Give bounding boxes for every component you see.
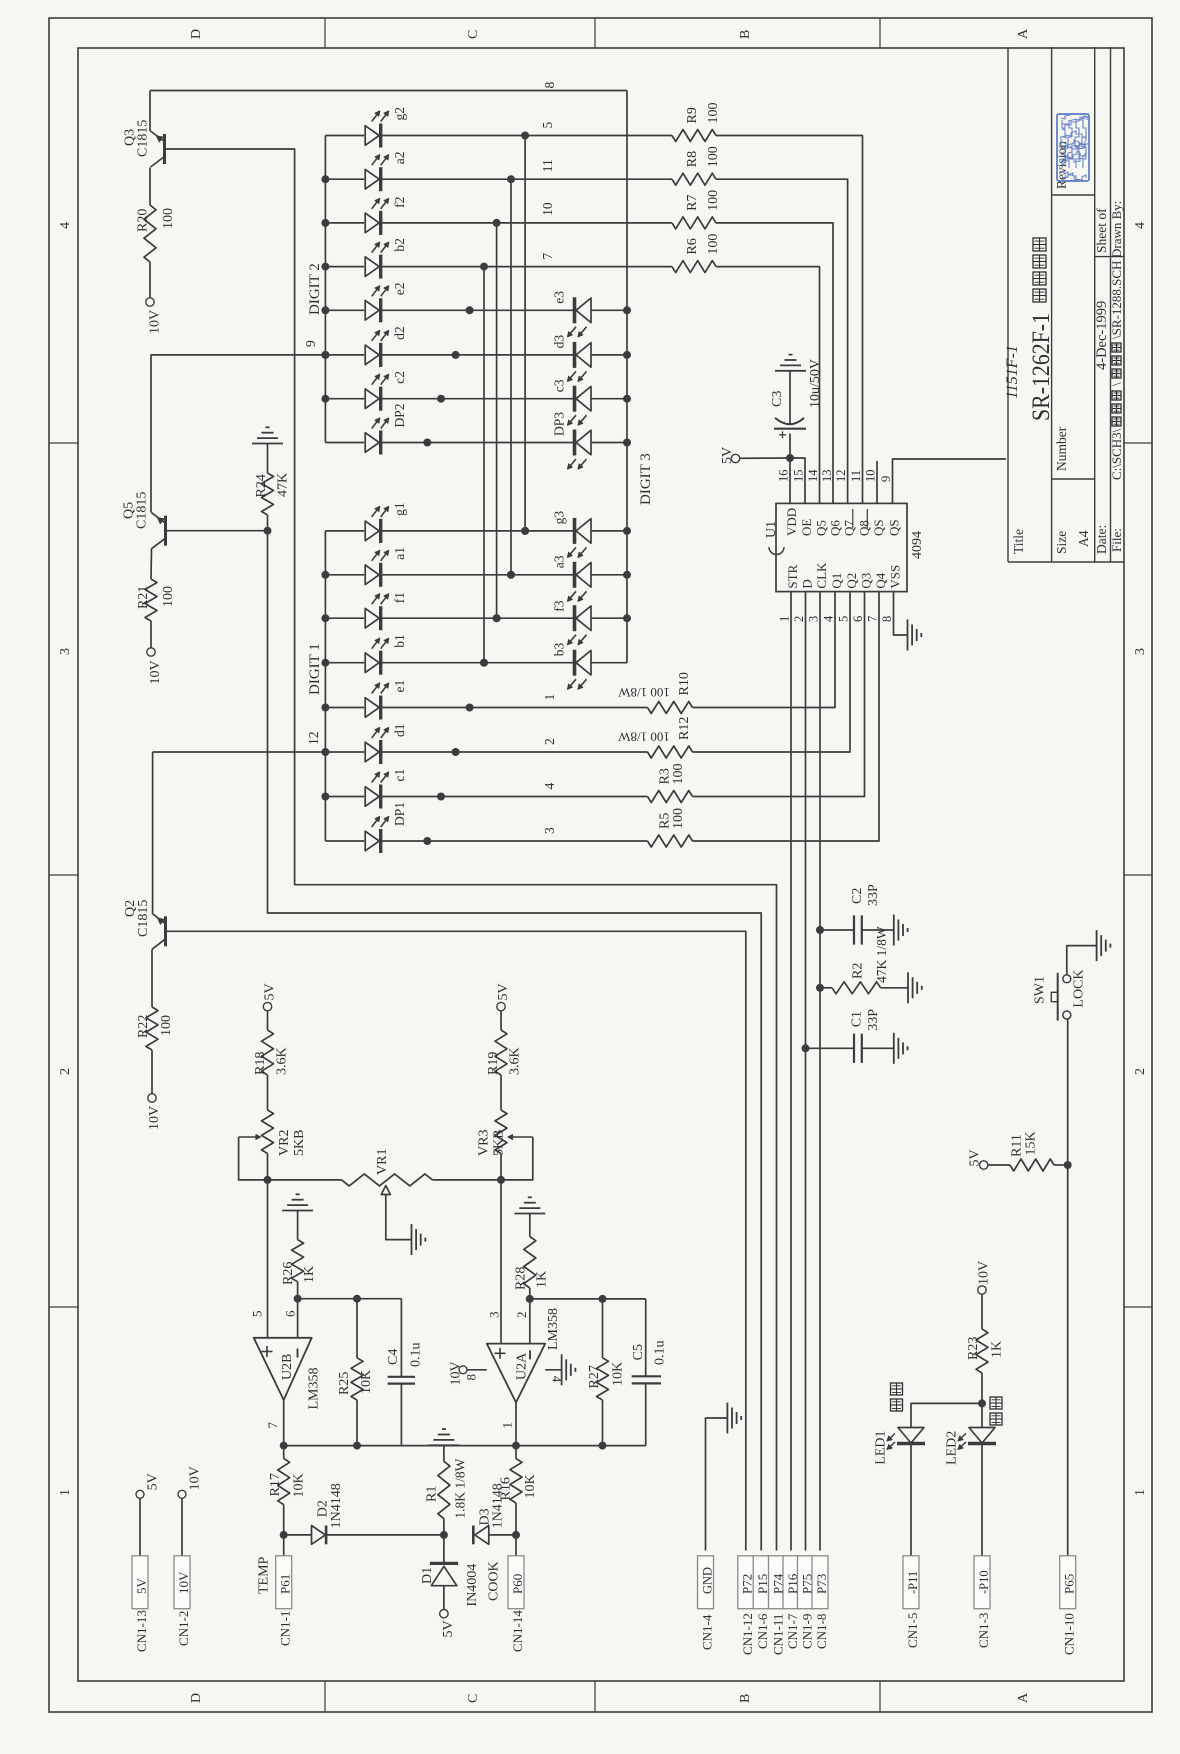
U1 pin 3 wire to P73 bbox=[819, 592, 821, 1551]
svg-text:CN1-1: CN1-1 bbox=[278, 1611, 293, 1646]
svg-text:10: 10 bbox=[540, 202, 555, 216]
svg-text:C1: C1 bbox=[850, 1011, 865, 1027]
svg-text:100: 100 bbox=[159, 1015, 174, 1036]
svg-text:R25: R25 bbox=[337, 1372, 352, 1395]
wire cathode column b bbox=[483, 267, 485, 663]
wire shared cathode row bbox=[381, 354, 574, 356]
junction DIGIT2 bus bbox=[321, 395, 329, 403]
potentiometer VR3 bbox=[500, 1075, 502, 1110]
diode D3 1N4148 bbox=[472, 1526, 475, 1545]
junction DIGIT2 bus bbox=[321, 263, 329, 271]
svg-text:10V: 10V bbox=[188, 1466, 203, 1490]
wire output row bbox=[284, 1445, 646, 1447]
connector CN1-13 5V bbox=[136, 1490, 144, 1498]
svg-text:33P: 33P bbox=[866, 884, 881, 906]
svg-text:c1: c1 bbox=[392, 769, 407, 782]
svg-text:CN1-13: CN1-13 bbox=[134, 1610, 149, 1652]
svg-text:R21: R21 bbox=[136, 586, 151, 609]
svg-text:4: 4 bbox=[822, 615, 836, 622]
wire segment net row 1 bbox=[381, 707, 648, 709]
wire DIGIT2 anode bus bbox=[324, 136, 326, 443]
svg-text:10: 10 bbox=[864, 470, 878, 483]
svg-text:Q8: Q8 bbox=[857, 520, 872, 536]
junction D1 D2 D3 R1 node bbox=[440, 1531, 448, 1539]
svg-text:C1815: C1815 bbox=[136, 900, 151, 937]
svg-text:5V: 5V bbox=[134, 1578, 149, 1595]
svg-text:R7: R7 bbox=[685, 195, 700, 211]
wire DIGIT1 anode bus bbox=[324, 531, 326, 841]
junction Q5 base R24 bbox=[264, 527, 272, 535]
wire cathode column a bbox=[510, 179, 512, 575]
ground above R24 bbox=[267, 444, 269, 473]
svg-text:4-Dec-1999: 4-Dec-1999 bbox=[1094, 301, 1110, 370]
wire U2B output bbox=[283, 1400, 285, 1446]
svg-text:B: B bbox=[738, 30, 753, 39]
junction DIGIT1 bus bbox=[321, 614, 329, 622]
svg-text:A: A bbox=[1016, 28, 1031, 39]
LED b1 bbox=[325, 662, 364, 664]
junction cathode column bbox=[480, 659, 488, 667]
svg-text:10V: 10V bbox=[176, 1571, 191, 1594]
wire U2A output bbox=[515, 1403, 517, 1446]
resistor R25 bbox=[356, 1299, 358, 1358]
svg-text:C1815: C1815 bbox=[136, 120, 151, 157]
svg-text:12: 12 bbox=[834, 470, 848, 483]
IC U1 4094 body bbox=[776, 503, 907, 591]
svg-text:Q1: Q1 bbox=[829, 573, 844, 589]
U1 pin 8 VSS ground bbox=[894, 592, 908, 635]
resistor R5 bbox=[648, 835, 693, 847]
svg-text:Date:: Date: bbox=[1094, 525, 1109, 554]
svg-text:C: C bbox=[466, 30, 481, 39]
svg-text:U2B: U2B bbox=[280, 1354, 295, 1380]
wire segment net row 5 bbox=[381, 135, 672, 137]
svg-text:5V: 5V bbox=[263, 983, 278, 1000]
svg-text:LM358: LM358 bbox=[546, 1308, 561, 1350]
svg-text:5: 5 bbox=[250, 1311, 265, 1318]
svg-text:R12: R12 bbox=[677, 717, 692, 740]
svg-text:Q6: Q6 bbox=[828, 520, 843, 536]
svg-text:\SR-1288.SCH: \SR-1288.SCH bbox=[1109, 261, 1124, 339]
svg-text:C4: C4 bbox=[386, 1349, 401, 1365]
junction cathode column end bbox=[452, 748, 460, 756]
connector CN1-3 -P10 bbox=[974, 1556, 990, 1609]
junction DIGIT3 bus bbox=[623, 439, 631, 447]
wire feedback row U2A bbox=[530, 1298, 646, 1300]
capacitor C5 bbox=[645, 1299, 647, 1376]
LED c3 bbox=[576, 386, 591, 411]
wire U2A pin4 ground bbox=[545, 1369, 561, 1371]
power terminal 10V Q5 bbox=[150, 621, 152, 648]
svg-text:5V: 5V bbox=[968, 1149, 983, 1166]
svg-text:11: 11 bbox=[849, 470, 863, 482]
svg-text:SW1: SW1 bbox=[1033, 976, 1048, 1004]
svg-text:C2: C2 bbox=[850, 888, 865, 904]
LED f1 bbox=[325, 617, 364, 619]
LED g3 bbox=[576, 519, 591, 544]
junction R17 P61 D2 bbox=[280, 1531, 288, 1539]
power terminal 10V Q3 bbox=[149, 262, 151, 298]
svg-text:DIGIT 3: DIGIT 3 bbox=[638, 453, 654, 505]
svg-text:12: 12 bbox=[306, 732, 321, 746]
svg-text:C5: C5 bbox=[631, 1344, 646, 1360]
svg-text:-P10: -P10 bbox=[977, 1570, 991, 1594]
svg-text:File:: File: bbox=[1109, 528, 1124, 552]
junction DIGIT3 bus bbox=[623, 527, 631, 535]
junction DIGIT2 bus bbox=[321, 351, 329, 359]
svg-text:47K: 47K bbox=[276, 473, 291, 497]
svg-text:0.1u: 0.1u bbox=[409, 1343, 424, 1368]
resistor R24 bbox=[262, 473, 274, 515]
svg-text:a1: a1 bbox=[392, 547, 407, 560]
junction cathode column bbox=[423, 439, 431, 447]
op-amp U2A bbox=[487, 1344, 545, 1403]
junction DIGIT1 bus bbox=[321, 571, 329, 579]
power terminal 10V U2A bbox=[459, 1366, 467, 1374]
svg-text:Q5: Q5 bbox=[814, 520, 829, 536]
wire shared cathode row bbox=[381, 530, 574, 532]
svg-text:47K 1/8W: 47K 1/8W bbox=[874, 926, 889, 983]
wire segment net row 4 bbox=[381, 796, 648, 798]
resistor R8 bbox=[672, 173, 716, 185]
svg-text:Number: Number bbox=[1054, 426, 1069, 471]
wire U2B plus input pin5 bbox=[267, 1180, 269, 1338]
svg-text:U1: U1 bbox=[764, 521, 779, 538]
svg-text:R1: R1 bbox=[425, 1486, 440, 1502]
junction cathode column end bbox=[437, 793, 445, 801]
junction cathode column bottom bbox=[507, 571, 515, 579]
svg-text:15K: 15K bbox=[1024, 1131, 1039, 1155]
svg-text:Drawn By:: Drawn By: bbox=[1109, 201, 1124, 258]
resistor R26 bbox=[297, 1211, 299, 1240]
svg-text:1: 1 bbox=[542, 694, 557, 701]
LED f3 bbox=[576, 606, 591, 631]
svg-text:CLK: CLK bbox=[814, 562, 829, 589]
svg-text:QS: QS bbox=[871, 519, 886, 536]
svg-text:VSS: VSS bbox=[888, 565, 903, 589]
wire segment net row 10 bbox=[381, 222, 672, 224]
svg-text:5V: 5V bbox=[720, 447, 735, 464]
ground C2 bbox=[893, 915, 895, 946]
svg-text:g1: g1 bbox=[392, 502, 407, 516]
junction R11 SW1 P65 bbox=[1064, 1161, 1072, 1169]
svg-text:4: 4 bbox=[542, 783, 557, 790]
junction R27 bottom bbox=[599, 1442, 607, 1450]
svg-text:R17: R17 bbox=[268, 1473, 283, 1496]
svg-text:d3: d3 bbox=[552, 335, 567, 349]
svg-text:LM358: LM358 bbox=[307, 1368, 322, 1410]
svg-text:D: D bbox=[189, 1693, 204, 1703]
junction cathode column bbox=[507, 571, 515, 579]
wire shared cathode row bbox=[381, 398, 574, 400]
junction DIGIT3 bus bbox=[623, 571, 631, 579]
wire anode to DIGIT3 bus bbox=[591, 617, 627, 619]
connector CN1-2 10V bbox=[178, 1490, 186, 1498]
svg-text:1.8K 1/8W: 1.8K 1/8W bbox=[453, 1458, 468, 1518]
junction cathode column top bbox=[480, 263, 488, 271]
svg-text:VR2: VR2 bbox=[277, 1130, 292, 1156]
LED a3 bbox=[576, 563, 591, 588]
svg-text:5KB: 5KB bbox=[292, 1130, 307, 1156]
svg-text:1: 1 bbox=[58, 1489, 73, 1496]
power terminal 5V R11 bbox=[980, 1161, 988, 1169]
svg-text:5V: 5V bbox=[496, 983, 511, 1000]
connector CN1-4 GND bbox=[698, 1556, 714, 1609]
junction DIGIT2 bus bbox=[321, 306, 329, 314]
transistor Q5 bbox=[150, 355, 152, 513]
junction DIGIT2 bus bbox=[321, 175, 329, 183]
connector CN1-11 P74 bbox=[769, 1556, 785, 1609]
wire to U1 bbox=[716, 267, 820, 504]
LED e2 bbox=[325, 309, 364, 311]
svg-text:100: 100 bbox=[706, 146, 721, 167]
svg-text:f3: f3 bbox=[552, 600, 567, 611]
svg-text:100 1/8W: 100 1/8W bbox=[617, 730, 669, 745]
svg-text:1: 1 bbox=[778, 616, 792, 622]
svg-text:7: 7 bbox=[265, 1422, 280, 1429]
svg-text:R16: R16 bbox=[499, 1477, 514, 1500]
svg-text:R9: R9 bbox=[685, 107, 700, 123]
junction DIGIT1 bus bbox=[321, 659, 329, 667]
LED g2 bbox=[325, 135, 364, 137]
svg-text:CN1-2: CN1-2 bbox=[176, 1611, 191, 1646]
title text CJK 控制基板 bbox=[1033, 289, 1046, 302]
svg-text:1: 1 bbox=[500, 1422, 515, 1429]
wire anode to DIGIT3 bus bbox=[591, 530, 627, 532]
svg-text:D1: D1 bbox=[420, 1567, 435, 1584]
svg-text:R24: R24 bbox=[254, 474, 269, 497]
svg-text:3: 3 bbox=[487, 1312, 502, 1319]
wire to U1 bbox=[716, 179, 848, 503]
wire segment net row 7 bbox=[381, 266, 672, 268]
svg-text:CN1-10: CN1-10 bbox=[1062, 1613, 1077, 1655]
svg-text:1N4148: 1N4148 bbox=[329, 1483, 344, 1528]
wire cathode column f bbox=[496, 223, 498, 618]
capacitor C4 bbox=[400, 1299, 402, 1377]
diode D1 IN4004 bbox=[443, 1535, 445, 1564]
svg-text:TEMP: TEMP bbox=[257, 1556, 272, 1594]
svg-text:11: 11 bbox=[540, 159, 555, 172]
junction DIGIT3 bus bbox=[623, 306, 631, 314]
svg-text:c3: c3 bbox=[552, 379, 567, 392]
LED e3 bbox=[576, 298, 591, 323]
svg-text:10V: 10V bbox=[148, 310, 163, 334]
junction DIGIT2 bus bbox=[321, 219, 329, 227]
capacitor C1 bbox=[802, 1044, 810, 1052]
svg-text:5KB: 5KB bbox=[492, 1130, 507, 1156]
svg-text:LOCK: LOCK bbox=[1072, 969, 1087, 1007]
LED b2 bbox=[325, 266, 364, 268]
svg-text:SR-1262F-1: SR-1262F-1 bbox=[1028, 313, 1055, 421]
junction cathode column bottom bbox=[521, 527, 529, 535]
LED DP3 bbox=[576, 430, 591, 455]
wire to U1 bbox=[716, 136, 863, 504]
svg-text:3.6K: 3.6K bbox=[508, 1047, 523, 1075]
connector CN1-6 P15 bbox=[753, 1556, 769, 1609]
svg-text:1151F-1: 1151F-1 bbox=[1004, 345, 1021, 399]
U1 pin 16 15 stub to 5V bbox=[789, 458, 791, 503]
svg-text:P60: P60 bbox=[510, 1574, 525, 1594]
ground VR1 bbox=[411, 1224, 413, 1255]
wire to U1 bbox=[693, 592, 865, 797]
wire anode to DIGIT3 bus bbox=[591, 574, 627, 576]
svg-text:100: 100 bbox=[706, 234, 721, 255]
resistor R27 bbox=[602, 1299, 604, 1358]
LED LED2 bbox=[981, 1403, 983, 1427]
LED b3 bbox=[576, 650, 591, 675]
LED LED1 bbox=[898, 1428, 924, 1444]
svg-text:\: \ bbox=[1109, 382, 1124, 386]
wire shared cathode row bbox=[381, 574, 574, 576]
wire segment net row 11 bbox=[381, 178, 672, 180]
wire Q2 base to P72 column bbox=[166, 931, 746, 1550]
revision blue stamp bbox=[1057, 114, 1089, 181]
wire shared cathode row bbox=[381, 662, 574, 664]
svg-text:P73: P73 bbox=[814, 1574, 829, 1594]
ground R2 bbox=[907, 972, 909, 1003]
svg-text:e3: e3 bbox=[552, 291, 567, 304]
junction R27 top bbox=[599, 1295, 607, 1303]
svg-text:5: 5 bbox=[540, 122, 555, 129]
svg-text:7: 7 bbox=[866, 616, 880, 622]
capacitor C2 bbox=[816, 926, 824, 934]
resistor R11 bbox=[988, 1164, 1010, 1166]
svg-text:CN1-14: CN1-14 bbox=[510, 1610, 525, 1652]
resistor R6 bbox=[672, 261, 716, 273]
svg-text:b1: b1 bbox=[392, 634, 407, 648]
svg-text:B: B bbox=[738, 1694, 753, 1703]
LED DP1 bbox=[325, 840, 364, 842]
junction DIGIT3 bus bbox=[623, 395, 631, 403]
svg-text:DP3: DP3 bbox=[552, 412, 567, 436]
svg-text:CN1-12: CN1-12 bbox=[740, 1613, 755, 1655]
svg-text:R10: R10 bbox=[677, 672, 692, 695]
svg-text:R23: R23 bbox=[966, 1337, 981, 1360]
svg-text:1K: 1K bbox=[302, 1266, 317, 1283]
LED g1 bbox=[325, 530, 364, 532]
wire to U1 bbox=[693, 592, 851, 752]
svg-text:2: 2 bbox=[1133, 1068, 1148, 1075]
svg-text:100: 100 bbox=[706, 190, 721, 211]
resistor R10 bbox=[648, 702, 693, 714]
svg-text:3: 3 bbox=[1133, 648, 1148, 655]
svg-text:100: 100 bbox=[671, 808, 686, 829]
svg-text:R2: R2 bbox=[851, 963, 866, 979]
svg-text:3: 3 bbox=[542, 827, 557, 834]
junction U2B out bbox=[280, 1442, 288, 1450]
svg-text:10V: 10V bbox=[449, 1361, 464, 1385]
wire shared cathode row bbox=[381, 309, 574, 311]
svg-text:2: 2 bbox=[792, 616, 806, 622]
junction U2A pin2 node bbox=[526, 1295, 534, 1303]
svg-text:1: 1 bbox=[1133, 1489, 1148, 1496]
svg-text:c2: c2 bbox=[392, 371, 407, 384]
junction R16 D3 P60 bbox=[512, 1531, 520, 1539]
svg-text:R20: R20 bbox=[136, 209, 151, 232]
potentiometer VR2 bbox=[267, 1075, 269, 1110]
svg-text:DP1: DP1 bbox=[392, 802, 407, 826]
wire anode to DIGIT3 bus bbox=[591, 662, 627, 664]
wire Q5 base to R24 and P15 column bbox=[166, 530, 268, 532]
svg-text:-P11: -P11 bbox=[906, 1571, 920, 1594]
svg-text:GND: GND bbox=[700, 1567, 714, 1594]
wire anode to DIGIT3 bus bbox=[591, 354, 627, 356]
wire shared cathode row bbox=[381, 617, 574, 619]
wire feedback row U2B bbox=[298, 1298, 402, 1300]
wire shared cathode row bbox=[381, 442, 574, 444]
svg-text:4: 4 bbox=[1133, 222, 1148, 229]
svg-text:C:\SCH3\: C:\SCH3\ bbox=[1109, 428, 1124, 480]
wire P65 column bbox=[1067, 1165, 1069, 1556]
svg-text:R19: R19 bbox=[486, 1052, 501, 1075]
ground above C3 bbox=[775, 370, 806, 372]
wire segment net row 3 bbox=[381, 840, 648, 842]
svg-text:R6: R6 bbox=[685, 238, 700, 254]
junction cathode column bottom bbox=[480, 659, 488, 667]
svg-text:CN1-5: CN1-5 bbox=[905, 1613, 920, 1648]
svg-text:R8: R8 bbox=[685, 151, 700, 167]
wire anode to DIGIT3 bus bbox=[591, 398, 627, 400]
svg-text:8: 8 bbox=[880, 616, 894, 622]
svg-text:Sheet of: Sheet of bbox=[1094, 208, 1109, 253]
transistor Q2 bbox=[152, 752, 154, 913]
connector CN1-12 P72 bbox=[738, 1556, 754, 1609]
wire SW1 to ground bbox=[1067, 946, 1097, 975]
svg-text:P72: P72 bbox=[740, 1574, 755, 1594]
junction VR3 wiper bbox=[497, 1176, 505, 1184]
connector CN1-9 P75 bbox=[798, 1556, 814, 1609]
svg-text:5V: 5V bbox=[441, 1620, 456, 1637]
svg-text:Q3: Q3 bbox=[859, 573, 874, 589]
wire P61 stub bbox=[283, 1535, 285, 1556]
LED c2 bbox=[325, 398, 364, 400]
wire DIGIT3 anode bus bbox=[626, 91, 628, 663]
LED a1 bbox=[325, 574, 364, 576]
svg-text:C1815: C1815 bbox=[135, 492, 150, 529]
svg-text:d1: d1 bbox=[392, 724, 407, 738]
svg-text:b3: b3 bbox=[552, 642, 567, 656]
svg-text:D: D bbox=[800, 579, 815, 588]
svg-text:d2: d2 bbox=[392, 326, 407, 340]
U1 pin 9 wire bbox=[893, 459, 1007, 503]
resistor R2 bbox=[816, 984, 824, 992]
svg-text:13: 13 bbox=[820, 470, 834, 483]
svg-text:CN1-9: CN1-9 bbox=[800, 1614, 815, 1649]
connector CN1-8 P73 bbox=[812, 1556, 828, 1609]
U1 pin 10 stub bbox=[876, 461, 878, 503]
svg-text:C3: C3 bbox=[770, 391, 785, 407]
svg-text:A4: A4 bbox=[1076, 530, 1091, 547]
svg-text:C: C bbox=[466, 1694, 481, 1703]
svg-text:R26: R26 bbox=[281, 1262, 296, 1285]
title block outline bbox=[1007, 47, 1009, 562]
svg-text:100 1/8W: 100 1/8W bbox=[617, 685, 669, 700]
connector CN1-5 -P11 bbox=[903, 1556, 919, 1609]
svg-text:100: 100 bbox=[706, 103, 721, 124]
wire to U1 bbox=[693, 592, 836, 708]
svg-text:DP2: DP2 bbox=[392, 403, 407, 427]
resistor R16 bbox=[515, 1503, 517, 1535]
ground C1 bbox=[893, 1033, 895, 1064]
svg-text:100: 100 bbox=[161, 586, 176, 607]
junction cathode column bbox=[437, 395, 445, 403]
junction U2A out bbox=[512, 1442, 520, 1450]
svg-text:3: 3 bbox=[58, 648, 73, 655]
svg-text:100: 100 bbox=[671, 764, 686, 785]
svg-text:10V: 10V bbox=[148, 660, 163, 684]
svg-text:CN1-4: CN1-4 bbox=[700, 1614, 715, 1650]
svg-text:Q2: Q2 bbox=[844, 573, 859, 589]
